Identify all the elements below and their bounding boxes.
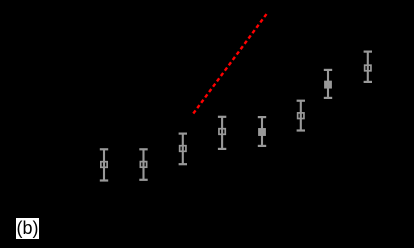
data point 1 error bar (open square) — [100, 149, 108, 180]
data point 6 error bar (open square) — [297, 101, 305, 131]
data point 4 error bar (open square) — [218, 117, 226, 149]
data point 8 error bar (open square) — [364, 52, 372, 82]
data point 3 error bar (open square) — [179, 134, 187, 165]
panel label (b) — [16, 218, 39, 239]
data point 5 error bar (filled square) — [258, 117, 266, 146]
red dashed trend line — [193, 14, 266, 114]
data point 2 error bar (open square) — [139, 149, 147, 180]
data point 7 error bar (filled square) — [324, 70, 332, 98]
